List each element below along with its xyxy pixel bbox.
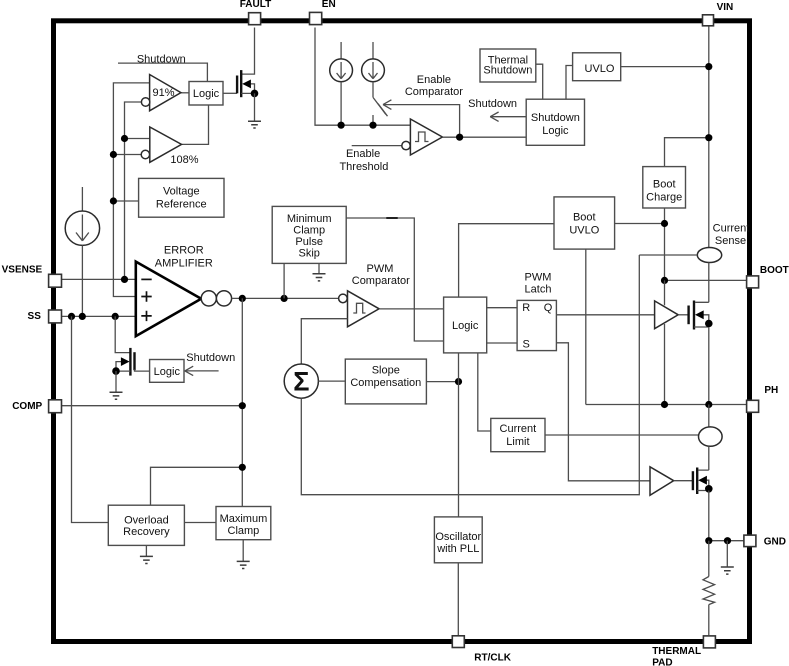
wire COMP pin bbox=[61, 405, 242, 407]
switch hysteresis pull-up bbox=[373, 98, 388, 126]
wire SS to Overload Recovery bbox=[72, 316, 109, 522]
pin COMP bbox=[12, 400, 61, 413]
svg-text:Clamp: Clamp bbox=[293, 225, 325, 237]
wire VSENSE rail (91% inverting input down to VSENSE wire) bbox=[125, 102, 142, 279]
svg-text:Minimum: Minimum bbox=[287, 213, 332, 225]
svg-text:THERMAL: THERMAL bbox=[652, 646, 701, 657]
wire SS to error amp + input bbox=[61, 315, 135, 317]
amplifier low-side gate driver bbox=[650, 467, 674, 496]
svg-text:Comparator: Comparator bbox=[405, 86, 463, 98]
node junction GND/ground bbox=[724, 537, 731, 544]
comparator 108% bbox=[141, 127, 199, 166]
svg-text:108%: 108% bbox=[170, 154, 198, 166]
svg-text:UVLO: UVLO bbox=[585, 63, 615, 75]
svg-text:VSENSE: VSENSE bbox=[2, 265, 43, 276]
logic U4 (main control logic) bbox=[444, 297, 487, 353]
wire Logic U4 to Boot UVLO bbox=[459, 224, 554, 297]
box Boot Charge bbox=[643, 167, 686, 208]
amplifier high-side gate driver bbox=[655, 301, 679, 329]
wire current sense return loop bbox=[301, 255, 639, 495]
svg-text:Shutdown: Shutdown bbox=[483, 65, 532, 77]
wire 108% inverting input bbox=[113, 154, 141, 156]
node junction slope/oscillator bbox=[455, 378, 462, 385]
wire error amp output to PWM comparator bbox=[232, 297, 339, 299]
wire Minimum Clamp output to Logic U4 bbox=[346, 218, 443, 341]
wire Minimum Clamp tap to error amp output bbox=[283, 263, 285, 298]
current limit sense element (low side) bbox=[699, 427, 723, 446]
box Maximum Clamp bbox=[216, 507, 271, 540]
node junction BOOT/driver rail bbox=[661, 277, 668, 284]
wire BOOT pin net bbox=[665, 279, 747, 281]
svg-text:ERROR: ERROR bbox=[164, 244, 204, 256]
comparator 91% bbox=[141, 75, 180, 111]
svg-text:BOOT: BOOT bbox=[760, 265, 789, 276]
wire current sense output bbox=[639, 254, 697, 256]
wire 108% top input bbox=[125, 138, 150, 140]
current source I-SS bbox=[65, 187, 99, 316]
svg-text:AMPLIFIER: AMPLIFIER bbox=[155, 257, 213, 269]
svg-text:Shutdown: Shutdown bbox=[531, 112, 580, 124]
node junction comparator output/switch bbox=[456, 134, 463, 141]
wire low-side FET source to GND bbox=[708, 491, 710, 541]
svg-text:Voltage: Voltage bbox=[163, 186, 200, 198]
wire sense to high-side FET drain bbox=[695, 263, 709, 303]
wire Thermal Shutdown to Shutdown Logic bbox=[536, 64, 543, 99]
wire 91% output to Logic U2 bbox=[181, 92, 189, 94]
box UVLO bbox=[573, 53, 621, 81]
node junction PH/FET node bbox=[705, 401, 712, 408]
svg-text:Slope: Slope bbox=[372, 365, 400, 377]
wire VIN rail bbox=[708, 26, 710, 248]
wire enable comparator output to Shutdown Logic bbox=[442, 136, 526, 138]
node junction VIN/UVLO bbox=[705, 63, 712, 70]
wire R input bbox=[487, 307, 517, 309]
svg-text:Shutdown: Shutdown bbox=[137, 53, 186, 65]
node junction minimum clamp tap bbox=[281, 295, 288, 302]
node junction PH/driver rail bbox=[661, 401, 668, 408]
transistor Q2 low-side power FET bbox=[693, 468, 713, 495]
wire BOOT to gate driver top bbox=[664, 280, 666, 305]
svg-text:Clamp: Clamp bbox=[228, 525, 260, 537]
svg-text:Logic: Logic bbox=[452, 320, 479, 332]
ground (FAULT FET source) bbox=[248, 93, 261, 128]
svg-text:Compensation: Compensation bbox=[350, 377, 421, 389]
transistor Q3 (FAULT open-drain FET) bbox=[237, 70, 258, 97]
pin RT/CLK bbox=[452, 636, 511, 664]
svg-text:Sense: Sense bbox=[715, 235, 746, 247]
wire Oscillator to RT/CLK pin bbox=[457, 563, 459, 635]
svg-text:Σ: Σ bbox=[293, 367, 309, 397]
svg-text:PWM: PWM bbox=[367, 263, 394, 275]
svg-text:Skip: Skip bbox=[298, 247, 319, 259]
ground (Minimum Clamp) bbox=[313, 263, 326, 281]
wire Logic U4 to Current Limit bbox=[478, 353, 491, 431]
wire Q output to gate driver bbox=[556, 314, 654, 316]
svg-text:PH: PH bbox=[764, 385, 778, 396]
node junction VREF/108% input bbox=[110, 151, 117, 158]
node junction EN/Ip bbox=[369, 122, 376, 129]
transistor Q4 (SS discharge FET) bbox=[112, 316, 149, 375]
svg-text:Q: Q bbox=[544, 302, 553, 314]
svg-text:COMP: COMP bbox=[12, 401, 42, 412]
svg-text:Enable: Enable bbox=[346, 148, 380, 160]
node junction VIN/Boot Charge bbox=[705, 134, 712, 141]
comparator Enable bbox=[402, 119, 443, 155]
pin EN bbox=[310, 0, 336, 25]
svg-text:Shutdown: Shutdown bbox=[186, 352, 235, 364]
wire Boot Charge to BOOT net bbox=[664, 208, 666, 280]
node junction SS/overload line bbox=[68, 313, 75, 320]
current source Ihys bbox=[330, 42, 353, 125]
wire Current Limit to sense ellipse bbox=[545, 434, 699, 436]
ground (GND pin) bbox=[721, 541, 734, 574]
wire Overload Recovery to Maximum Clamp bbox=[184, 522, 216, 524]
pin PH bbox=[747, 385, 779, 413]
wire PH to current limit sense bbox=[708, 405, 710, 428]
wire UVLO to Shutdown Logic bbox=[566, 66, 573, 100]
svg-text:Charge: Charge bbox=[646, 192, 682, 204]
node junction VSENSE/108% top input bbox=[121, 135, 128, 142]
wire VSENSE to error amp inverting input bbox=[61, 278, 135, 280]
wire Logic U2 to FAULT FET gate bbox=[223, 92, 237, 94]
svg-text:Logic: Logic bbox=[193, 88, 220, 100]
box Boot UVLO bbox=[554, 197, 615, 249]
box Slope Compensation bbox=[345, 359, 426, 404]
pin FAULT bbox=[240, 0, 271, 25]
wire summing node to PWM comparator input bbox=[301, 319, 347, 364]
svg-text:Boot: Boot bbox=[653, 179, 676, 191]
node junction SS/current source bbox=[79, 313, 86, 320]
wire UVLO to VIN rail bbox=[621, 66, 709, 68]
wire Shutdown arrow from Shutdown Logic bbox=[490, 112, 526, 121]
svg-text:Oscillator: Oscillator bbox=[435, 531, 481, 543]
wire Shutdown net to Logic U2 bbox=[118, 63, 207, 81]
node junction GND/sense resistor bbox=[705, 537, 712, 544]
wire switch control from comparator output bbox=[383, 100, 460, 137]
wire PWM comparator output to Logic U4 bbox=[379, 308, 444, 310]
svg-text:Limit: Limit bbox=[506, 436, 529, 448]
ground (Overload Recovery) bbox=[140, 545, 153, 563]
wire FAULT pin to FET drain bbox=[241, 28, 254, 75]
node junction COMP bbox=[239, 402, 246, 409]
wire sense to low-side FET drain bbox=[699, 446, 709, 470]
current source Ip bbox=[362, 42, 385, 98]
node junction overload/COMP riser bbox=[239, 464, 246, 471]
wire COMP riser (error amp output down to Maximum Clamp) bbox=[241, 298, 243, 506]
box Shutdown Logic bbox=[526, 99, 584, 145]
op-amp U1 error amplifier bbox=[136, 262, 232, 337]
wire VIN to Boot Charge bbox=[665, 138, 709, 167]
box Voltage Reference bbox=[139, 178, 224, 217]
box Thermal Shutdown bbox=[480, 49, 536, 82]
svg-text:PWM: PWM bbox=[525, 271, 552, 283]
logic U2 (91% fault logic) bbox=[189, 82, 223, 106]
node junction COMP riser bbox=[239, 295, 246, 302]
wire latch to low-side driver bbox=[556, 343, 650, 481]
wire gate driver bottom to PH bbox=[664, 324, 666, 405]
svg-text:RT/CLK: RT/CLK bbox=[474, 653, 511, 664]
svg-text:with PLL: with PLL bbox=[436, 543, 479, 555]
pin VIN bbox=[703, 2, 734, 26]
wire driver to high-side gate bbox=[678, 314, 688, 316]
svg-text:PAD: PAD bbox=[652, 657, 672, 666]
comparator PWM bbox=[339, 291, 380, 327]
svg-text:SS: SS bbox=[28, 311, 42, 322]
wire driver to low-side gate bbox=[674, 480, 693, 482]
svg-text:FAULT: FAULT bbox=[240, 0, 271, 10]
node junction VREF/Voltage Reference bbox=[110, 197, 117, 204]
wire Boot UVLO to BOOT net bbox=[615, 223, 665, 225]
svg-text:GND: GND bbox=[764, 536, 786, 547]
svg-text:S: S bbox=[523, 338, 530, 350]
box Current Limit bbox=[491, 418, 545, 451]
wire high-side FET source to PH bbox=[708, 327, 710, 405]
svg-text:R: R bbox=[522, 302, 530, 314]
node junction Boot Charge/Boot UVLO bbox=[661, 220, 668, 227]
wire Voltage Reference output bbox=[113, 200, 138, 202]
node junction VSENSE wire bbox=[121, 276, 128, 283]
box Minimum Clamp Pulse Skip bbox=[272, 206, 346, 263]
summing node sigma bbox=[284, 364, 318, 398]
transistor Q1 high-side power FET bbox=[689, 301, 713, 330]
wire PH to Boot UVLO sense bbox=[586, 249, 747, 404]
svg-text:Boot: Boot bbox=[573, 211, 596, 223]
current sense element (high side) bbox=[697, 248, 721, 263]
ground (Maximum Clamp) bbox=[237, 540, 250, 569]
svg-text:91%: 91% bbox=[152, 87, 174, 99]
pin BOOT bbox=[747, 265, 789, 288]
pin VSENSE bbox=[2, 265, 62, 287]
wire sigma to Slope Compensation bbox=[318, 380, 345, 382]
svg-text:Shutdown: Shutdown bbox=[468, 98, 517, 110]
pin GND bbox=[744, 535, 786, 547]
wire Slope Compensation to oscillator line bbox=[426, 381, 458, 383]
svg-text:EN: EN bbox=[322, 0, 336, 10]
pin SS bbox=[28, 310, 62, 323]
wire GND pin net bbox=[709, 540, 744, 542]
node junction EN/Ihys bbox=[338, 122, 345, 129]
wire overload recovery link bbox=[151, 467, 243, 505]
wire Shutdown arrow into Logic U3 bbox=[185, 352, 235, 375]
wire Logic U4 to Oscillator bbox=[458, 353, 460, 517]
svg-text:Recovery: Recovery bbox=[123, 526, 170, 538]
ground (SS FET source) bbox=[110, 371, 123, 399]
flip-flop PWM latch bbox=[517, 300, 556, 350]
svg-text:Maximum: Maximum bbox=[220, 513, 268, 525]
svg-text:UVLO: UVLO bbox=[569, 224, 599, 236]
wire EN pin to enable comparator bbox=[315, 28, 410, 126]
svg-text:Overload: Overload bbox=[124, 514, 169, 526]
resistor thermal-pad sense bbox=[703, 541, 715, 636]
svg-text:Logic: Logic bbox=[154, 366, 181, 378]
svg-text:Pulse: Pulse bbox=[295, 236, 323, 248]
node junction SS/discharge FET bbox=[112, 313, 119, 320]
wire S input bbox=[487, 342, 517, 344]
pin THERMAL PAD bbox=[652, 636, 715, 666]
svg-text:Current: Current bbox=[713, 223, 750, 235]
wire VREF rail (91% top input, down to error amp + input) bbox=[113, 83, 149, 297]
logic U3 (SS shutdown logic) bbox=[150, 360, 184, 383]
wire enable threshold input bbox=[352, 145, 402, 147]
wire overdraw segment bbox=[386, 217, 397, 219]
svg-text:VIN: VIN bbox=[717, 2, 734, 13]
svg-text:Latch: Latch bbox=[525, 284, 552, 296]
box Oscillator with PLL bbox=[434, 517, 482, 563]
svg-text:Enable: Enable bbox=[417, 74, 451, 86]
box Overload Recovery bbox=[108, 505, 184, 545]
svg-text:Threshold: Threshold bbox=[339, 161, 388, 173]
svg-text:Current: Current bbox=[500, 423, 537, 435]
wire 108% output to Logic U2 bottom bbox=[182, 105, 209, 144]
svg-text:Comparator: Comparator bbox=[352, 275, 410, 287]
svg-text:Reference: Reference bbox=[156, 199, 207, 211]
svg-text:Logic: Logic bbox=[542, 125, 569, 137]
